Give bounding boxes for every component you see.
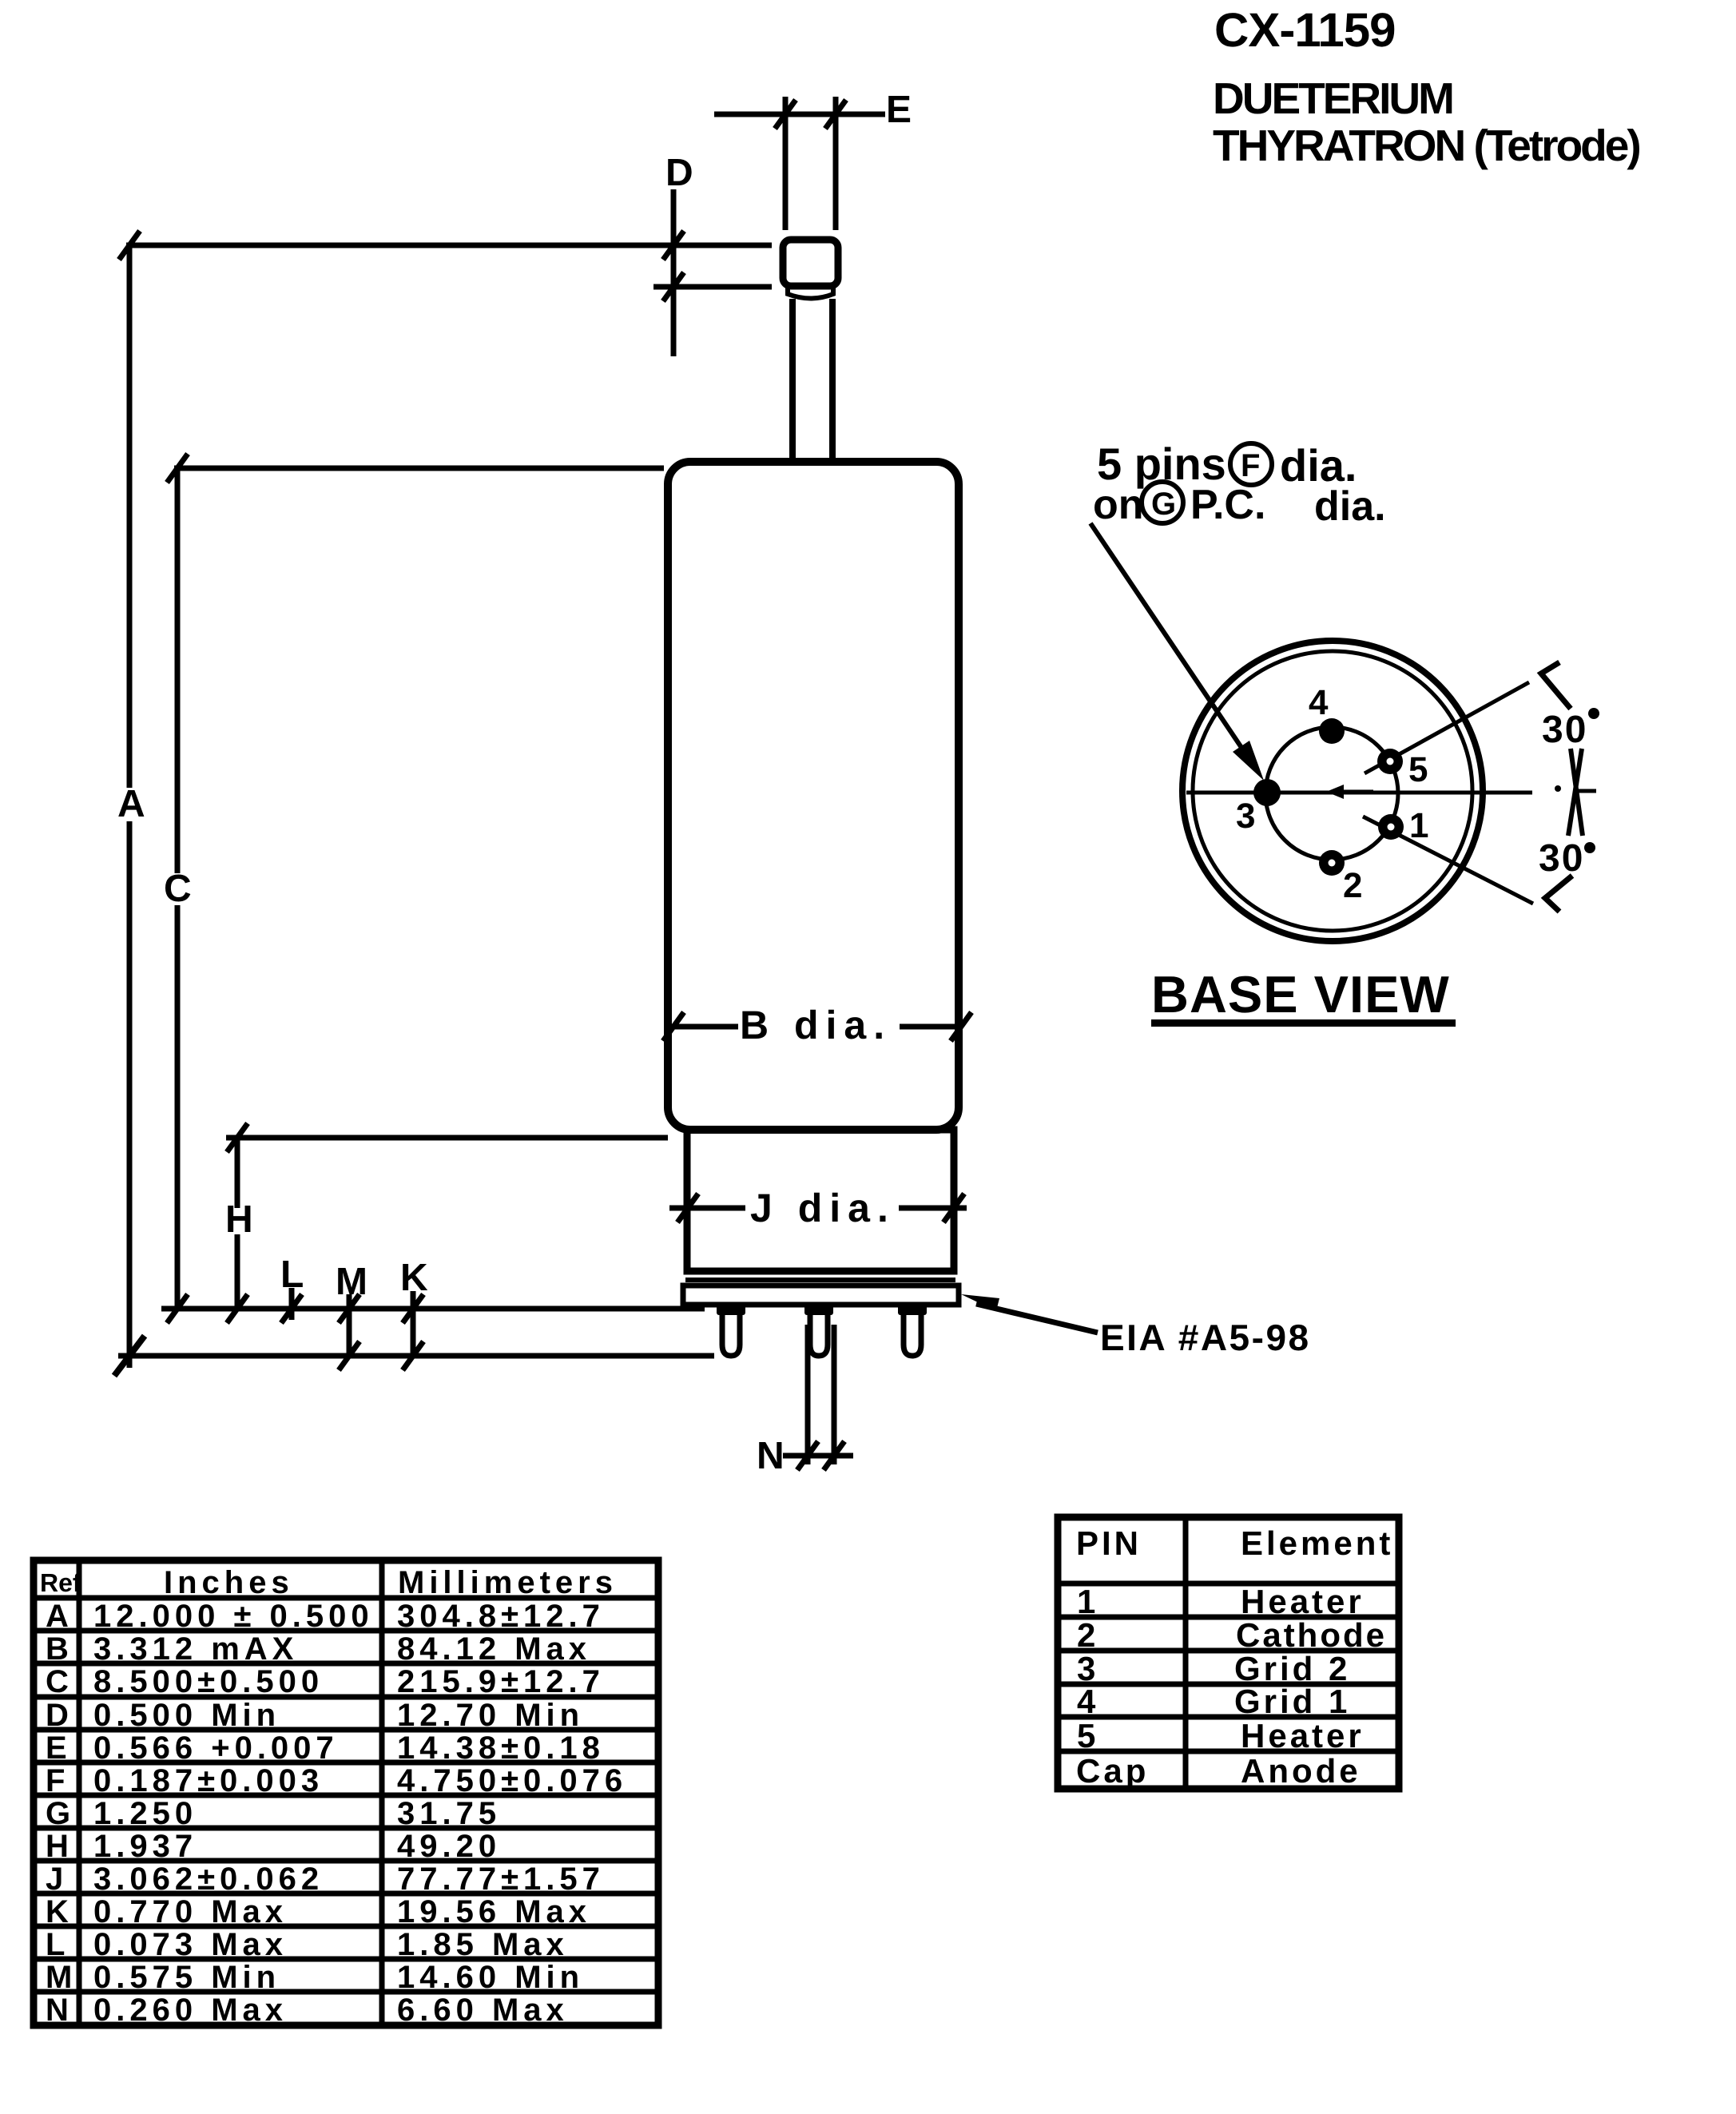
- svg-text:K: K: [400, 1257, 428, 1299]
- svg-text:EIA #A5-98: EIA #A5-98: [1100, 1317, 1311, 1358]
- svg-text:3.062±0.062: 3.062±0.062: [93, 1862, 324, 1897]
- svg-text:F: F: [1241, 448, 1260, 483]
- svg-text:B dia.: B dia.: [740, 1003, 892, 1047]
- svg-text:C: C: [46, 1664, 73, 1699]
- svg-text:CX-1159: CX-1159: [1214, 3, 1396, 57]
- svg-text:F: F: [46, 1763, 70, 1798]
- svg-text:3: 3: [1236, 797, 1255, 836]
- svg-text:77.77±1.57: 77.77±1.57: [397, 1862, 605, 1897]
- svg-text:0.575 Min: 0.575 Min: [93, 1960, 280, 1995]
- svg-text:Grid 2: Grid 2: [1234, 1650, 1350, 1687]
- svg-text:1: 1: [1409, 806, 1428, 845]
- svg-text:THYRATRON (Tetrode): THYRATRON (Tetrode): [1213, 121, 1639, 170]
- svg-text:Inches: Inches: [164, 1565, 294, 1600]
- svg-text:E: E: [886, 89, 912, 131]
- svg-text:G: G: [1151, 487, 1176, 522]
- svg-text:H: H: [46, 1829, 73, 1864]
- svg-text:Element: Element: [1241, 1524, 1393, 1562]
- svg-text:304.8±12.7: 304.8±12.7: [397, 1599, 605, 1634]
- svg-text:0.500 Min: 0.500 Min: [93, 1698, 280, 1733]
- svg-text:12.000 ± 0.500: 12.000 ± 0.500: [93, 1599, 374, 1634]
- svg-text:4: 4: [1309, 683, 1329, 722]
- svg-text:M: M: [46, 1960, 77, 1995]
- svg-text:5: 5: [1408, 750, 1428, 789]
- svg-text:14.38±0.18: 14.38±0.18: [397, 1731, 605, 1766]
- svg-text:215.9±12.7: 215.9±12.7: [397, 1664, 605, 1699]
- svg-text:12.70 Min: 12.70 Min: [397, 1698, 584, 1733]
- svg-text:Cap: Cap: [1076, 1752, 1149, 1790]
- svg-text:4: 4: [1077, 1683, 1098, 1720]
- svg-text:Cathode: Cathode: [1236, 1616, 1387, 1654]
- svg-text:31.75: 31.75: [397, 1796, 501, 1831]
- svg-text:J: J: [46, 1862, 68, 1897]
- svg-text:Ref: Ref: [40, 1568, 81, 1597]
- svg-text:C: C: [164, 868, 192, 910]
- svg-text:PIN: PIN: [1076, 1524, 1142, 1562]
- svg-text:BASE VIEW: BASE VIEW: [1151, 965, 1450, 1023]
- svg-text:0.260 Max: 0.260 Max: [93, 1993, 288, 2028]
- svg-text:D: D: [46, 1698, 73, 1733]
- svg-text:N: N: [46, 1993, 73, 2028]
- svg-text:0.187±0.003: 0.187±0.003: [93, 1763, 324, 1798]
- svg-text:0.566 +0.007: 0.566 +0.007: [93, 1731, 339, 1766]
- svg-text:J dia.: J dia.: [750, 1186, 896, 1230]
- svg-text:L: L: [280, 1254, 304, 1296]
- svg-text:1.250: 1.250: [93, 1796, 197, 1831]
- svg-text:5: 5: [1077, 1717, 1098, 1754]
- svg-text:19.56 Max: 19.56 Max: [397, 1894, 591, 1929]
- svg-text:49.20: 49.20: [397, 1829, 501, 1864]
- svg-text:K: K: [46, 1894, 73, 1929]
- svg-text:6.60 Max: 6.60 Max: [397, 1993, 569, 2028]
- svg-text:on: on: [1093, 482, 1144, 528]
- svg-text:A: A: [46, 1599, 73, 1634]
- svg-text:30: 30: [1539, 837, 1584, 880]
- svg-text:14.60 Min: 14.60 Min: [397, 1960, 584, 1995]
- svg-text:A: A: [117, 783, 145, 825]
- svg-text:8.500±0.500: 8.500±0.500: [93, 1664, 324, 1699]
- svg-text:L: L: [46, 1927, 70, 1962]
- svg-text:G: G: [46, 1796, 75, 1831]
- svg-text:84.12 Max: 84.12 Max: [397, 1631, 591, 1667]
- svg-text:E: E: [46, 1731, 72, 1766]
- svg-text:Grid 1: Grid 1: [1234, 1683, 1350, 1720]
- svg-text:Heater: Heater: [1241, 1717, 1365, 1754]
- svg-text:2: 2: [1077, 1616, 1098, 1654]
- svg-text:0.770 Max: 0.770 Max: [93, 1894, 288, 1929]
- svg-text:1.85 Max: 1.85 Max: [397, 1927, 569, 1962]
- svg-text:2: 2: [1343, 866, 1362, 905]
- svg-text:3: 3: [1077, 1650, 1098, 1687]
- svg-text:N: N: [757, 1435, 785, 1477]
- svg-text:B: B: [46, 1631, 73, 1667]
- svg-text:1.937: 1.937: [93, 1829, 197, 1864]
- svg-text:D: D: [665, 152, 693, 194]
- svg-text:0.073 Max: 0.073 Max: [93, 1927, 288, 1962]
- svg-text:dia.: dia.: [1314, 483, 1386, 530]
- svg-text:3.312 mAX: 3.312 mAX: [93, 1631, 298, 1667]
- svg-text:Heater: Heater: [1241, 1583, 1365, 1620]
- svg-text:DUETERIUM: DUETERIUM: [1213, 74, 1452, 123]
- svg-text:M: M: [336, 1261, 367, 1303]
- svg-text:4.750±0.076: 4.750±0.076: [397, 1763, 627, 1798]
- svg-text:30: 30: [1542, 709, 1587, 751]
- svg-text:Millimeters: Millimeters: [398, 1565, 618, 1600]
- svg-text:1: 1: [1077, 1583, 1098, 1620]
- svg-text:P.C.: P.C.: [1190, 482, 1265, 528]
- svg-text:H: H: [225, 1198, 253, 1241]
- svg-text:Anode: Anode: [1241, 1752, 1361, 1790]
